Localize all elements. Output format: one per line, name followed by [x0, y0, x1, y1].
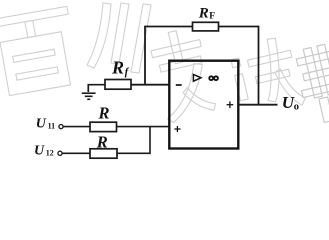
resistor R1	[90, 122, 117, 131]
svg-text:o: o	[294, 101, 299, 112]
input terminal U11	[59, 125, 63, 129]
op-amp output plus mark	[227, 101, 234, 108]
svg-text:R: R	[111, 58, 124, 78]
svg-text:11: 11	[48, 122, 56, 131]
watermark character 1 (outlined)	[0, 6, 80, 96]
resistor RF	[193, 22, 219, 31]
svg-text:f: f	[125, 66, 130, 78]
op-amp triangle symbol	[193, 74, 201, 81]
watermark character 5 (outlined, cut at right edge)	[293, 41, 329, 126]
op-amp minus input mark	[176, 84, 182, 86]
wire: top feedback left segment	[145, 26, 193, 28]
op-amp infinity symbol	[209, 76, 218, 80]
ground	[82, 93, 96, 99]
op-amp U1 box	[169, 61, 238, 149]
wire: output	[239, 104, 278, 106]
wire: U11 to R1	[63, 126, 90, 128]
watermark character 2 (outlined)	[87, 3, 151, 73]
op-amp plus input mark	[174, 126, 180, 132]
resistor Rf	[105, 80, 131, 90]
wire: top feedback right segment	[219, 26, 259, 28]
svg-text:R: R	[98, 104, 110, 123]
wire: R1 to op-amp plus input	[117, 126, 170, 128]
svg-text:F: F	[209, 11, 215, 21]
wire: inverting input horizontal	[131, 84, 170, 86]
wire: R2 right then up to junction	[117, 127, 150, 154]
svg-text:R: R	[198, 5, 209, 21]
svg-text:U: U	[34, 143, 45, 158]
svg-text:R: R	[96, 133, 108, 152]
input terminal U12	[58, 151, 62, 155]
svg-text:U: U	[36, 116, 47, 131]
wire: right feedback vertical	[258, 26, 260, 105]
watermark character 3 (outlined)	[148, 26, 218, 124]
wire: left feedback vertical	[144, 26, 146, 85]
wire: U12 to R2	[62, 152, 90, 154]
watermark character 4 (outlined)	[228, 34, 307, 119]
resistor R2	[90, 149, 117, 158]
wire: Rf to ground	[88, 85, 105, 92]
svg-text:12: 12	[46, 149, 54, 158]
